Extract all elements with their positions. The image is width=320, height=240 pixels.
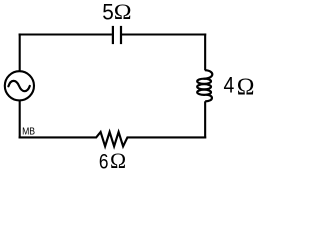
- svg-text:MB: MB: [22, 126, 35, 138]
- wire right upper segment: [204, 33, 206, 70]
- AC source V1 sine wave: [8, 81, 29, 91]
- inductor L1 loop 2: [197, 84, 211, 89]
- inductor L1 exit curve: [205, 95, 212, 102]
- wire top-left segment: [19, 33, 112, 35]
- svg-text:Ω: Ω: [237, 74, 255, 100]
- svg-text:5: 5: [102, 0, 114, 25]
- capacitor C1 left plate: [112, 26, 114, 44]
- wire bottom with resistor R1 zigzag: [19, 132, 207, 146]
- svg-text:6: 6: [99, 151, 109, 171]
- inductor L1 loop 3: [197, 90, 211, 95]
- inductor L1 entry curve: [204, 70, 213, 79]
- AC source V1 circle: [5, 71, 34, 100]
- inductor L1 loop 1: [197, 79, 211, 84]
- svg-text:Ω: Ω: [110, 149, 126, 171]
- capacitor C1 right plate: [120, 26, 122, 44]
- svg-text:Ω: Ω: [114, 0, 132, 25]
- wire right lower segment: [204, 101, 206, 138]
- wire left lower segment: [19, 101, 21, 138]
- svg-text:4: 4: [224, 74, 235, 98]
- wire top-right segment: [122, 33, 206, 35]
- wire left upper segment: [19, 33, 21, 70]
